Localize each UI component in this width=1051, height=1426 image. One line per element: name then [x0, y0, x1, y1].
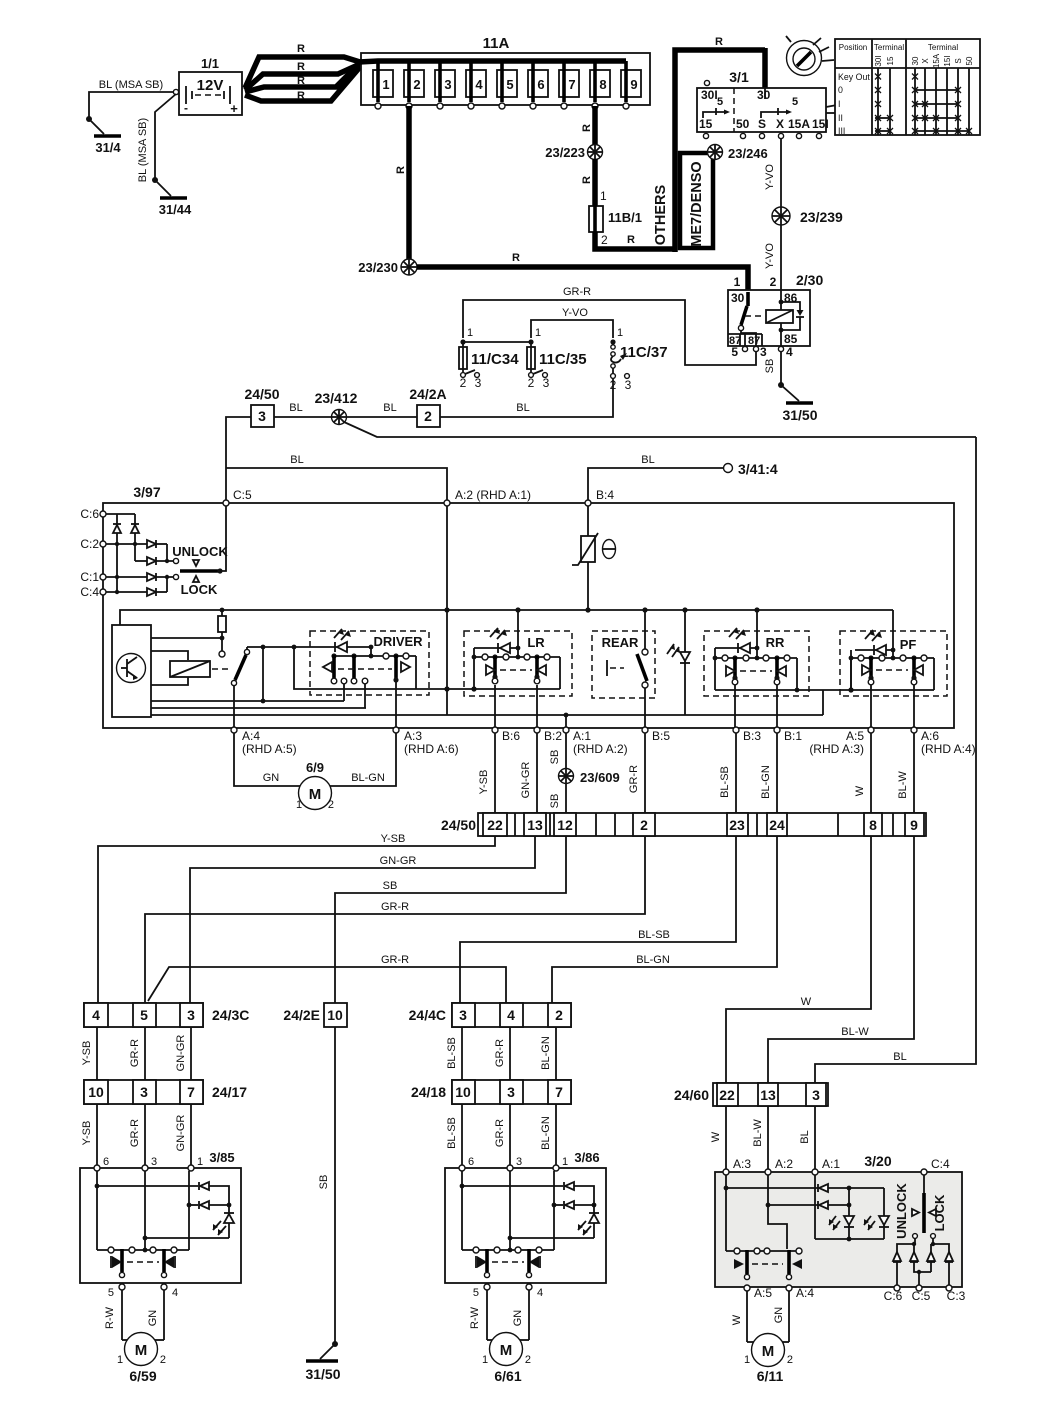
- svg-text:15: 15: [886, 56, 895, 65]
- terminal A:3: [393, 727, 399, 733]
- wire Y-SB 24/17 to 3/85 pin 6: [96, 1104, 98, 1168]
- connector 24/17: [84, 1080, 247, 1104]
- svg-text:B:5: B:5: [652, 729, 670, 743]
- wire R splice 23/223 to fuse 11B/1: [592, 159, 598, 206]
- svg-text:15I: 15I: [943, 55, 952, 66]
- svg-text:7: 7: [555, 1084, 563, 1100]
- svg-text:A:1: A:1: [573, 729, 591, 743]
- door lock unit 3/85: [80, 1150, 241, 1299]
- svg-text:4: 4: [507, 1007, 515, 1023]
- wire R-W 3/86 pin 5 to motor: [486, 1290, 488, 1340]
- thermistor RT: [572, 533, 598, 565]
- svg-text:11C/35: 11C/35: [539, 351, 587, 368]
- wire BL-SB pin 23 to 24/4C pin 3: [460, 836, 736, 1003]
- svg-text:24/2E: 24/2E: [283, 1007, 320, 1023]
- terminal C:4 of 3/20: [921, 1169, 927, 1175]
- svg-text:10: 10: [88, 1084, 104, 1100]
- svg-text:GN-GR: GN-GR: [520, 762, 532, 799]
- pin 23: [727, 813, 748, 836]
- svg-text:A:3: A:3: [404, 729, 422, 743]
- switch group 3/20: [726, 1248, 802, 1280]
- svg-text:A:1: A:1: [822, 1157, 840, 1171]
- diode in relay: [781, 302, 804, 330]
- connector 11C/35: [527, 327, 587, 390]
- svg-text:A:4: A:4: [242, 729, 260, 743]
- svg-text:15A: 15A: [788, 117, 810, 131]
- svg-text:31/44: 31/44: [159, 202, 192, 217]
- svg-text:BL-SB: BL-SB: [446, 1037, 458, 1069]
- svg-text:GR-R: GR-R: [494, 1039, 506, 1067]
- svg-text:23/239: 23/239: [800, 209, 843, 225]
- switch group 3/85: [97, 1247, 189, 1278]
- svg-text:2: 2: [601, 233, 608, 247]
- motor 6/59: [117, 1333, 166, 1385]
- svg-text:BL-GN: BL-GN: [540, 1116, 552, 1150]
- terminal B:4: [585, 500, 591, 506]
- svg-text:BL: BL: [383, 402, 396, 414]
- svg-text:4: 4: [537, 1287, 543, 1299]
- svg-text:24/4C: 24/4C: [409, 1007, 446, 1023]
- wire BL-W A:6 to pin 9: [913, 733, 915, 813]
- svg-text:PF: PF: [900, 637, 917, 652]
- pin A:4 of 3/20: [786, 1285, 792, 1291]
- LED on LR line: [474, 647, 518, 649]
- svg-text:Y-SB: Y-SB: [81, 1121, 93, 1146]
- internal wiring 3/20: [725, 1175, 727, 1251]
- svg-text:2: 2: [528, 376, 535, 390]
- relay pin 3: [753, 346, 758, 351]
- svg-text:3: 3: [475, 376, 482, 390]
- svg-text:GN: GN: [773, 1307, 785, 1324]
- svg-text:22: 22: [719, 1087, 735, 1103]
- svg-text:R-W: R-W: [104, 1306, 116, 1329]
- internal switch: [231, 647, 249, 686]
- pin 13: [524, 813, 546, 836]
- svg-text:3: 3: [625, 378, 632, 392]
- terminal C:5: [223, 500, 229, 506]
- fuse 1: [373, 61, 393, 109]
- pin 8: [864, 813, 882, 836]
- wire REAR output to B:5: [644, 688, 646, 728]
- svg-text:BL-W: BL-W: [897, 771, 909, 799]
- terminal A:2 of 3/20: [765, 1169, 771, 1175]
- pin 9: [905, 813, 924, 836]
- svg-text:7: 7: [568, 77, 575, 92]
- svg-text:M: M: [309, 786, 322, 803]
- svg-text:BL: BL: [516, 402, 529, 414]
- svg-text:REAR: REAR: [602, 635, 639, 650]
- terminal B:1: [774, 727, 780, 733]
- wire RR to PF link: [797, 658, 851, 690]
- svg-text:85: 85: [784, 332, 798, 346]
- relay coil wiring: [779, 300, 784, 305]
- wire R fuse 2 down to splice 23/230: [406, 106, 412, 267]
- svg-text:BL-W: BL-W: [841, 1026, 869, 1038]
- wire BL splice 23/412 to connector 24/2A: [347, 416, 417, 418]
- svg-text:BL-W: BL-W: [752, 1119, 764, 1147]
- wire Y-VO ignition X to splice 23/239: [780, 139, 782, 207]
- svg-text:C:1: C:1: [80, 570, 99, 584]
- wire Y-VO connector 11C/35 to 11C/37: [531, 320, 613, 338]
- svg-text:GN: GN: [263, 772, 280, 784]
- wire Y-VO splice 23/239 to relay 2/30 pin 2: [780, 225, 782, 290]
- wire LR outputs: [494, 685, 496, 728]
- svg-text:3/97: 3/97: [133, 484, 160, 500]
- relay pin 4: [778, 346, 783, 351]
- key switch symbol: [786, 36, 837, 113]
- svg-text:SB: SB: [764, 359, 776, 374]
- diode D2: [131, 524, 139, 533]
- fuse 7: [559, 61, 579, 109]
- svg-text:23/246: 23/246: [728, 146, 768, 161]
- svg-text:BL (MSA SB): BL (MSA SB): [137, 118, 149, 182]
- wire GN-GR pin 13 to 24/3C pin 3: [190, 836, 535, 1003]
- svg-text:11A: 11A: [483, 35, 510, 52]
- svg-text:24/17: 24/17: [212, 1084, 247, 1100]
- svg-text:GR-R: GR-R: [563, 286, 591, 298]
- svg-text:1: 1: [467, 327, 473, 339]
- wire GN-GR 24/17 to 3/85 pin 1: [190, 1104, 192, 1168]
- fuse box 11A: [361, 53, 650, 105]
- UNLOCK LOCK rocker switch: [172, 506, 228, 597]
- terminal C:2: [100, 541, 106, 547]
- fuse 2: [404, 61, 424, 109]
- svg-text:1: 1: [117, 1354, 123, 1366]
- wire R-W 3/85 pin 5 to motor: [121, 1290, 123, 1340]
- svg-text:5: 5: [473, 1287, 479, 1299]
- connector 24/50 pin 3: [244, 386, 279, 427]
- wire BL (MSA SB) battery to ground 31/44: [155, 94, 176, 180]
- svg-text:8: 8: [869, 817, 877, 833]
- diode in 3/85 upper: [199, 1182, 209, 1190]
- svg-text:LR: LR: [527, 635, 545, 650]
- svg-text:-: -: [184, 101, 188, 115]
- svg-text:II: II: [838, 113, 843, 123]
- svg-text:6/9: 6/9: [306, 760, 324, 775]
- svg-text:BL: BL: [799, 1130, 811, 1143]
- transistor U1: [112, 625, 151, 717]
- wire BL-GN 24/18 to 3/86 pin 1: [555, 1104, 557, 1168]
- wire W 24/60 to 3/20 A:3: [725, 1106, 727, 1172]
- connector 11/C34: [459, 327, 519, 390]
- connector strip 24/50: [441, 813, 926, 836]
- diode in 3/85 lower: [199, 1201, 209, 1209]
- svg-text:1: 1: [382, 77, 389, 92]
- RR door switch unit: [704, 607, 809, 696]
- svg-text:GN-GR: GN-GR: [175, 1035, 187, 1072]
- svg-text:BL-GN: BL-GN: [760, 765, 772, 799]
- svg-text:BL-GN: BL-GN: [636, 954, 670, 966]
- svg-text:3/20: 3/20: [864, 1153, 891, 1169]
- wire W A:5 to pin 8: [870, 733, 872, 813]
- fuse 11B/1: [589, 204, 603, 234]
- wire BL-GN A:3 to motor 6/9: [330, 733, 396, 786]
- svg-text:2: 2: [525, 1354, 531, 1366]
- ignition switch 3/1: [697, 88, 826, 132]
- wire SB A:1 to pin 12: [565, 733, 567, 813]
- svg-text:W: W: [710, 1131, 722, 1142]
- svg-text:Key Out: Key Out: [838, 72, 870, 82]
- diode bank of 3/20: [893, 1238, 953, 1287]
- diode D1: [113, 524, 121, 533]
- wire BL-W pin 9 to 24/60 pin 13: [768, 836, 914, 1083]
- svg-text:24/3C: 24/3C: [212, 1007, 249, 1023]
- svg-text:OTHERS: OTHERS: [653, 184, 669, 245]
- connector 24/4C: [409, 1003, 571, 1027]
- door lock unit 3/86: [445, 1150, 606, 1384]
- svg-text:C:4: C:4: [931, 1157, 950, 1171]
- fuse 6: [528, 61, 548, 109]
- svg-text:3/86: 3/86: [574, 1150, 599, 1165]
- wire OTHERS branch vertical: [675, 50, 765, 252]
- wire R battery feed 1: [245, 57, 360, 88]
- svg-text:23/609: 23/609: [580, 770, 620, 785]
- svg-text:B:2: B:2: [544, 729, 562, 743]
- svg-text:1/1: 1/1: [201, 56, 219, 71]
- wire drop to internal line: [262, 647, 264, 701]
- wire DRIVER outputs: [343, 684, 345, 701]
- connector 24/60: [674, 1083, 828, 1106]
- svg-text:5: 5: [140, 1007, 148, 1023]
- wire GN 3/86 pin 4 to motor: [528, 1290, 530, 1340]
- pin 12: [554, 813, 576, 836]
- svg-text:A:4: A:4: [796, 1286, 814, 1300]
- svg-text:R: R: [715, 36, 723, 48]
- svg-text:M: M: [500, 1342, 513, 1359]
- connector 24/2E pin 10: [283, 1003, 347, 1027]
- svg-text:BL: BL: [641, 454, 654, 466]
- svg-text:C:2: C:2: [80, 537, 99, 551]
- svg-text:1: 1: [296, 799, 302, 811]
- fuse 5: [497, 61, 517, 109]
- svg-text:3: 3: [507, 1084, 515, 1100]
- svg-text:X: X: [776, 117, 784, 131]
- svg-text:24/60: 24/60: [674, 1087, 709, 1103]
- motor 6/11: [744, 1334, 793, 1385]
- svg-text:GN-GR: GN-GR: [380, 855, 417, 867]
- svg-text:7: 7: [187, 1084, 195, 1100]
- svg-text:6: 6: [468, 1156, 474, 1168]
- ground 31/4: [89, 119, 104, 134]
- svg-text:5: 5: [506, 77, 513, 92]
- svg-text:3/85: 3/85: [209, 1150, 234, 1165]
- svg-text:5: 5: [717, 96, 723, 108]
- svg-text:SB: SB: [549, 794, 561, 809]
- wire PF outputs: [870, 685, 872, 728]
- svg-text:C:5: C:5: [233, 488, 252, 502]
- svg-text:2/30: 2/30: [796, 272, 823, 288]
- pin 24: [767, 813, 787, 836]
- wire Y-SB B:6 to pin 22: [494, 733, 496, 813]
- svg-text:4: 4: [475, 77, 483, 92]
- svg-text:Y-SB: Y-SB: [381, 833, 406, 845]
- wire R fuse 11B/1 to ME7/DENSO branch: [595, 232, 675, 249]
- splice 23/412: [332, 410, 347, 425]
- motor 6/9: [296, 760, 334, 811]
- internal bus: [120, 610, 893, 625]
- fuse 4: [466, 61, 486, 109]
- svg-text:24/18: 24/18: [411, 1084, 446, 1100]
- node ground 31/44 junction: [152, 177, 158, 183]
- svg-text:Y-VO: Y-VO: [562, 307, 588, 319]
- relay switch contact: [746, 292, 750, 306]
- svg-text:2: 2: [640, 817, 648, 833]
- wire BL module B:4 to 3/41:4: [588, 468, 723, 500]
- svg-text:4: 4: [92, 1007, 100, 1023]
- terminal A:6: [911, 727, 917, 733]
- diode D6: [147, 588, 156, 596]
- svg-text:3/1: 3/1: [729, 69, 749, 85]
- svg-text:C:3: C:3: [947, 1289, 966, 1303]
- svg-text:W: W: [854, 785, 866, 796]
- svg-text:BL (MSA SB): BL (MSA SB): [99, 79, 163, 91]
- diode network wiring: [106, 514, 173, 592]
- connector 24/2A pin 2: [409, 386, 446, 427]
- wire link 11/C34 pin1 to 11C/35 pin1: [463, 341, 531, 343]
- svg-text:13: 13: [527, 817, 543, 833]
- svg-text:Y-SB: Y-SB: [81, 1041, 93, 1066]
- svg-text:3: 3: [760, 345, 767, 359]
- terminal A:5: [868, 727, 874, 733]
- ground 31/44: [155, 180, 171, 196]
- diode in 3/20 upper: [818, 1184, 828, 1192]
- wire GN-GR B:2 to pin 13: [536, 733, 538, 813]
- svg-text:1: 1: [197, 1156, 203, 1168]
- svg-text:Terminal: Terminal: [928, 43, 958, 52]
- ground 31/50 lower: [320, 1344, 335, 1359]
- splice 23/223: [588, 145, 603, 160]
- svg-text:10: 10: [455, 1084, 471, 1100]
- ignition position table: [835, 39, 980, 136]
- wire Y-SB pin 22 to 24/3C pin 4: [98, 836, 495, 1003]
- svg-text:BL-GN: BL-GN: [351, 772, 385, 784]
- svg-text:31/4: 31/4: [95, 140, 121, 155]
- svg-text:23: 23: [729, 817, 745, 833]
- svg-text:31/50: 31/50: [305, 1366, 340, 1382]
- door lock unit 3/20 driver: [715, 1153, 966, 1303]
- svg-text:2: 2: [460, 376, 467, 390]
- svg-text:B:1: B:1: [784, 729, 802, 743]
- diode D5: [147, 573, 156, 581]
- svg-text:GR-R: GR-R: [381, 901, 409, 913]
- svg-text:Terminal: Terminal: [874, 43, 904, 52]
- svg-text:3/41:4: 3/41:4: [738, 461, 778, 477]
- svg-text:GR-R: GR-R: [129, 1119, 141, 1147]
- diode in 3/86 upper: [564, 1182, 574, 1190]
- terminal A:2: [444, 500, 450, 506]
- svg-text:III: III: [838, 126, 845, 136]
- fuse 9: [621, 61, 641, 109]
- svg-text:30I: 30I: [874, 55, 883, 66]
- pin 22: [483, 813, 507, 836]
- svg-text:3: 3: [812, 1087, 820, 1103]
- svg-text:1: 1: [535, 327, 541, 339]
- svg-text:A:5: A:5: [754, 1286, 772, 1300]
- svg-text:3: 3: [140, 1084, 148, 1100]
- terminal C:1: [100, 574, 106, 580]
- svg-text:B:3: B:3: [743, 729, 761, 743]
- svg-text:6/61: 6/61: [494, 1368, 521, 1384]
- wire GR-R pin 2 to 24/3C pin 5: [145, 836, 645, 1003]
- svg-text:BL-SB: BL-SB: [638, 929, 670, 941]
- svg-text:1: 1: [734, 275, 741, 289]
- wire SB relay pin 4 to ground 31/50: [780, 352, 782, 385]
- terminal 30I: [704, 80, 709, 85]
- svg-text:R: R: [581, 176, 593, 184]
- svg-text:2: 2: [160, 1354, 166, 1366]
- splice 23/246: [708, 145, 723, 160]
- svg-text:BL-SB: BL-SB: [719, 766, 731, 798]
- svg-text:GR-R: GR-R: [494, 1119, 506, 1147]
- svg-text:1: 1: [562, 1156, 568, 1168]
- svg-text:23/412: 23/412: [315, 390, 358, 406]
- relay pin 5: [742, 346, 747, 351]
- svg-text:DRIVER: DRIVER: [373, 634, 423, 649]
- diode C5: [927, 1252, 935, 1262]
- svg-text:11B/1: 11B/1: [608, 210, 642, 225]
- PF door switch unit: [840, 610, 947, 696]
- svg-text:30: 30: [757, 88, 771, 102]
- svg-text:11C/37: 11C/37: [620, 344, 668, 361]
- svg-text:5: 5: [792, 96, 798, 108]
- terminal A:1: [563, 727, 569, 733]
- splice 23/239: [772, 207, 790, 225]
- svg-text:30: 30: [911, 56, 920, 65]
- svg-text:LOCK: LOCK: [181, 582, 218, 597]
- LED indicator with diode: [667, 607, 690, 715]
- svg-text:Y-VO: Y-VO: [764, 164, 776, 190]
- terminal B:5: [642, 727, 648, 733]
- wire BL 24/2A to 11C/37 pin 2: [440, 379, 613, 417]
- motor 6/61: [482, 1333, 531, 1385]
- connector 24/3C: [84, 1003, 249, 1027]
- svg-text:2: 2: [555, 1007, 563, 1023]
- wire LED to pin 3 line: [145, 1237, 229, 1239]
- svg-text:Position: Position: [839, 43, 867, 52]
- svg-text:R-W: R-W: [469, 1306, 481, 1329]
- table column lines and rotated terminal labels: [874, 53, 974, 135]
- diode mid1: [910, 1252, 918, 1262]
- svg-text:UNLOCK: UNLOCK: [172, 544, 228, 559]
- wire switch control line: [247, 646, 371, 648]
- wire A:1 drop from rail: [565, 715, 567, 728]
- svg-text:BL: BL: [893, 1051, 906, 1063]
- pin C:3 of 3/20: [946, 1285, 952, 1291]
- svg-text:B:4: B:4: [596, 488, 614, 502]
- svg-text:C:4: C:4: [80, 585, 99, 599]
- svg-text:3: 3: [151, 1156, 157, 1168]
- fuse 3: [435, 61, 455, 109]
- svg-text:13: 13: [760, 1087, 776, 1103]
- svg-text:GR-R: GR-R: [628, 765, 640, 793]
- control module 3/97: [103, 503, 954, 728]
- svg-text:A:2 (RHD A:1): A:2 (RHD A:1): [455, 488, 531, 502]
- svg-text:BL-GN: BL-GN: [540, 1036, 552, 1070]
- REAR door switch unit: [592, 607, 655, 698]
- svg-text:2: 2: [770, 275, 777, 289]
- wire LED to pin 3 line: [510, 1237, 594, 1239]
- pin 2: [633, 813, 655, 836]
- wire internal rail: [151, 714, 823, 716]
- wire BL-SB B:3 to pin 23: [735, 733, 737, 813]
- svg-text:(RHD A:5): (RHD A:5): [242, 742, 297, 756]
- svg-text:15: 15: [699, 117, 713, 131]
- wire fuse bus bar: [359, 61, 626, 62]
- relay coil: [766, 310, 793, 323]
- svg-text:Y-VO: Y-VO: [764, 243, 776, 269]
- connector 3/41:4: [724, 464, 733, 473]
- LED on control line: [334, 629, 351, 652]
